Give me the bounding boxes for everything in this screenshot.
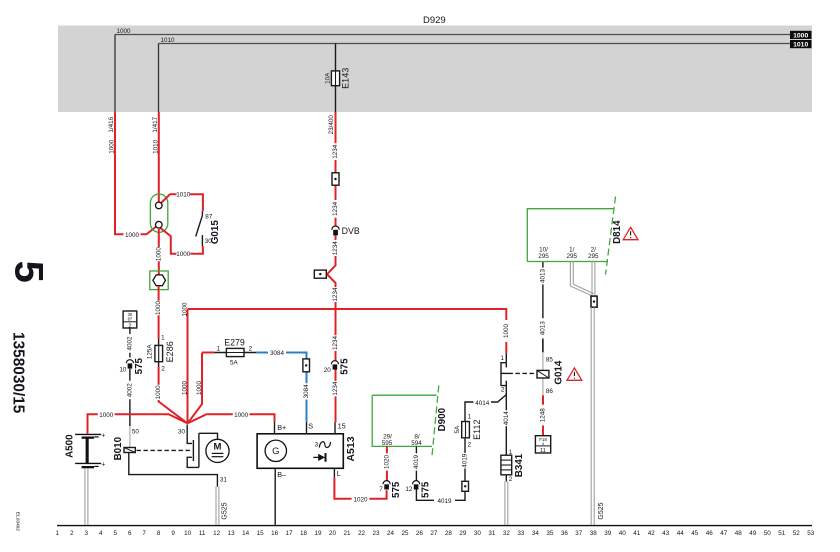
svg-text:15: 15 xyxy=(257,530,265,537)
svg-text:5: 5 xyxy=(113,530,117,537)
svg-text:5A: 5A xyxy=(454,425,461,434)
svg-text:1234: 1234 xyxy=(332,241,339,256)
svg-text:1000: 1000 xyxy=(125,232,140,239)
svg-text:23: 23 xyxy=(372,530,380,537)
svg-text:10: 10 xyxy=(119,366,127,373)
svg-text:1: 1 xyxy=(55,530,59,537)
svg-text:125A: 125A xyxy=(147,344,154,360)
svg-text:27: 27 xyxy=(430,530,438,537)
svg-text:B010: B010 xyxy=(113,436,124,460)
svg-text:S: S xyxy=(308,421,313,430)
svg-text:10A: 10A xyxy=(325,72,332,84)
svg-text:B+: B+ xyxy=(277,423,286,432)
svg-text:1000: 1000 xyxy=(181,302,188,317)
svg-text:1000: 1000 xyxy=(503,324,510,339)
svg-text:G525: G525 xyxy=(221,502,228,519)
svg-text:11: 11 xyxy=(199,530,206,537)
svg-text:20: 20 xyxy=(324,367,332,374)
svg-text:18: 18 xyxy=(300,530,308,537)
svg-text:G525: G525 xyxy=(598,502,605,519)
svg-text:295: 295 xyxy=(588,253,599,260)
svg-text:31: 31 xyxy=(220,476,228,483)
svg-text:1234: 1234 xyxy=(332,201,339,216)
svg-text:24: 24 xyxy=(387,530,395,537)
svg-text:4014: 4014 xyxy=(503,411,510,426)
svg-text:51: 51 xyxy=(778,530,786,537)
svg-text:1/416: 1/416 xyxy=(108,116,115,132)
svg-text:4019: 4019 xyxy=(413,455,420,470)
svg-text:4019: 4019 xyxy=(437,498,452,505)
svg-text:49: 49 xyxy=(749,530,757,537)
svg-text:DVB: DVB xyxy=(342,226,360,236)
svg-text:11: 11 xyxy=(540,448,546,454)
svg-text:28: 28 xyxy=(445,530,453,537)
svg-text:7: 7 xyxy=(142,530,146,537)
svg-text:1/417: 1/417 xyxy=(152,116,159,132)
svg-text:37: 37 xyxy=(575,530,583,537)
svg-text:48: 48 xyxy=(735,530,743,537)
svg-text:G015: G015 xyxy=(210,220,221,245)
svg-text:D900: D900 xyxy=(437,407,448,431)
svg-text:1234: 1234 xyxy=(332,144,339,159)
svg-text:30: 30 xyxy=(178,429,186,436)
svg-text:43: 43 xyxy=(662,530,670,537)
svg-text:13: 13 xyxy=(228,530,236,537)
svg-text:1: 1 xyxy=(217,345,221,352)
svg-text:1: 1 xyxy=(509,449,513,456)
svg-text:7: 7 xyxy=(379,486,383,493)
svg-text:16: 16 xyxy=(271,530,279,537)
svg-text:B–: B– xyxy=(277,470,287,479)
svg-text:46: 46 xyxy=(706,530,714,537)
svg-text:E279: E279 xyxy=(224,337,245,347)
svg-text:1000: 1000 xyxy=(182,381,189,396)
svg-text:52: 52 xyxy=(793,530,801,537)
svg-text:47: 47 xyxy=(720,530,728,537)
svg-text:12: 12 xyxy=(405,486,413,493)
svg-text:2: 2 xyxy=(70,530,74,537)
svg-text:1020: 1020 xyxy=(384,455,391,470)
svg-text:M: M xyxy=(214,442,222,453)
svg-text:87: 87 xyxy=(128,317,133,322)
svg-text:2: 2 xyxy=(468,442,472,449)
svg-text:1: 1 xyxy=(500,355,504,362)
svg-text:4013: 4013 xyxy=(540,269,547,284)
svg-text:85: 85 xyxy=(546,357,554,364)
svg-text:D929: D929 xyxy=(423,15,446,26)
svg-text:36: 36 xyxy=(561,530,569,537)
svg-text:45: 45 xyxy=(691,530,699,537)
svg-text:35: 35 xyxy=(546,530,554,537)
svg-text:3084: 3084 xyxy=(303,384,310,399)
svg-text:1000: 1000 xyxy=(196,381,203,396)
svg-text:3: 3 xyxy=(84,530,88,537)
svg-text:2: 2 xyxy=(161,365,165,372)
svg-text:1000: 1000 xyxy=(155,385,162,400)
svg-text:10: 10 xyxy=(184,530,192,537)
svg-text:30: 30 xyxy=(474,530,482,537)
svg-text:25: 25 xyxy=(401,530,409,537)
svg-text:3: 3 xyxy=(315,442,319,449)
svg-text:26: 26 xyxy=(416,530,424,537)
svg-text:50: 50 xyxy=(132,428,140,435)
svg-text:595: 595 xyxy=(382,440,393,447)
svg-text:1010: 1010 xyxy=(793,42,808,49)
svg-text:4: 4 xyxy=(99,530,103,537)
svg-text:1000: 1000 xyxy=(155,247,162,262)
svg-text:12: 12 xyxy=(213,530,221,537)
svg-text:44: 44 xyxy=(677,530,685,537)
svg-text:5A: 5A xyxy=(230,360,239,367)
svg-text:E112: E112 xyxy=(472,420,482,440)
svg-text:D814: D814 xyxy=(612,220,623,244)
svg-text:EL03492: EL03492 xyxy=(14,512,20,532)
svg-text:9: 9 xyxy=(171,530,175,537)
svg-text:295: 295 xyxy=(538,253,549,260)
svg-text:1010: 1010 xyxy=(161,37,176,44)
svg-text:34: 34 xyxy=(532,530,540,537)
svg-text:G: G xyxy=(272,446,279,457)
svg-text:1: 1 xyxy=(468,413,472,420)
svg-text:1000: 1000 xyxy=(117,28,132,35)
svg-text:32: 32 xyxy=(503,530,511,537)
svg-text:4019: 4019 xyxy=(462,453,469,468)
svg-text:50: 50 xyxy=(764,530,772,537)
svg-text:3084: 3084 xyxy=(270,350,285,357)
svg-text:1234: 1234 xyxy=(332,287,339,302)
svg-text:1010: 1010 xyxy=(153,139,160,154)
svg-text:20: 20 xyxy=(329,530,337,537)
svg-text:21: 21 xyxy=(343,530,351,537)
svg-text:14: 14 xyxy=(242,530,250,537)
svg-text:G014: G014 xyxy=(554,360,565,385)
svg-text:A500: A500 xyxy=(65,434,76,458)
svg-text:4002: 4002 xyxy=(127,383,134,398)
svg-text:38: 38 xyxy=(590,530,598,537)
svg-text:1000: 1000 xyxy=(155,301,162,316)
svg-text:4014: 4014 xyxy=(475,400,490,407)
svg-text:L: L xyxy=(337,469,341,478)
svg-text:4002: 4002 xyxy=(127,336,134,351)
svg-text:4013: 4013 xyxy=(540,321,547,336)
svg-text:29: 29 xyxy=(459,530,467,537)
svg-text:E143: E143 xyxy=(341,68,351,89)
svg-text:31: 31 xyxy=(488,530,496,537)
svg-text:19: 19 xyxy=(314,530,322,537)
svg-text:1020: 1020 xyxy=(353,496,368,503)
svg-text:17: 17 xyxy=(285,530,293,537)
svg-text:2: 2 xyxy=(501,386,505,393)
svg-text:594: 594 xyxy=(411,440,422,447)
svg-text:1234: 1234 xyxy=(332,381,339,396)
svg-text:1234: 1234 xyxy=(332,336,339,351)
svg-text:87: 87 xyxy=(205,214,213,221)
svg-text:1: 1 xyxy=(161,335,165,342)
svg-text:8: 8 xyxy=(157,530,161,537)
svg-text:575: 575 xyxy=(391,481,402,498)
svg-text:1000: 1000 xyxy=(234,412,249,419)
svg-text:1248: 1248 xyxy=(540,408,547,423)
svg-text:295: 295 xyxy=(567,253,578,260)
svg-text:575: 575 xyxy=(134,357,145,374)
svg-text:86: 86 xyxy=(546,388,554,395)
svg-text:15: 15 xyxy=(338,421,346,430)
svg-text:2: 2 xyxy=(249,345,253,352)
svg-text:41: 41 xyxy=(633,530,641,537)
svg-text:23/400: 23/400 xyxy=(328,115,335,135)
svg-text:+: + xyxy=(101,432,105,439)
svg-text:22: 22 xyxy=(358,530,366,537)
svg-text:6: 6 xyxy=(128,530,132,537)
svg-text:575: 575 xyxy=(420,481,431,498)
svg-text:575: 575 xyxy=(340,358,351,375)
svg-text:+: + xyxy=(101,461,105,468)
svg-text:1000: 1000 xyxy=(176,251,191,258)
svg-text:5: 5 xyxy=(6,261,50,283)
svg-text:1000: 1000 xyxy=(793,32,808,39)
svg-text:42: 42 xyxy=(648,530,656,537)
svg-text:1000: 1000 xyxy=(109,139,116,154)
svg-text:1010: 1010 xyxy=(176,192,191,199)
svg-text:39: 39 xyxy=(604,530,612,537)
svg-text:40: 40 xyxy=(619,530,627,537)
svg-text:53: 53 xyxy=(807,530,815,537)
svg-text:E286: E286 xyxy=(165,341,175,362)
svg-text:33: 33 xyxy=(517,530,525,537)
svg-text:1358030/15: 1358030/15 xyxy=(10,332,27,414)
svg-text:A513: A513 xyxy=(345,436,357,461)
svg-text:1000: 1000 xyxy=(99,412,114,419)
svg-text:2: 2 xyxy=(509,476,513,483)
svg-text:B341: B341 xyxy=(514,453,525,477)
